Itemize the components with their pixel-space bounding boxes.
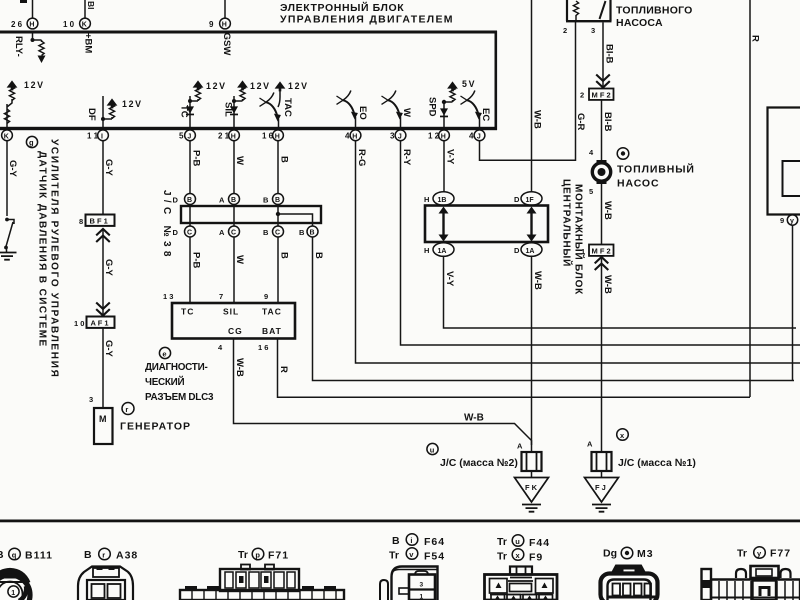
svg-text:SIL: SIL <box>223 307 239 317</box>
svg-text:W: W <box>234 156 245 165</box>
pin 9 H <box>209 18 230 29</box>
svg-text:2: 2 <box>563 26 567 35</box>
wire W-B from 1A to JC2 <box>531 256 533 452</box>
svg-text:I: I <box>101 133 103 140</box>
svg-text:G-Y: G-Y <box>103 259 114 277</box>
wire B bus from J/C38 <box>313 237 795 381</box>
svg-text:W: W <box>234 255 245 264</box>
wire from right pin down <box>792 225 794 380</box>
svg-text:M F 2: M F 2 <box>592 246 611 255</box>
connector F44/F9 drawing <box>485 567 558 600</box>
svg-text:НАСОСА: НАСОСА <box>616 17 663 29</box>
pin 21 H <box>218 130 239 141</box>
pin 16 H <box>262 130 283 141</box>
svg-text:A F 1: A F 1 <box>91 318 109 327</box>
svg-text:D: D <box>173 228 179 237</box>
pin 26 H <box>11 18 38 29</box>
wire R from DLC3 BAT <box>278 339 751 398</box>
circled u (JC2 code) <box>427 443 438 454</box>
svg-text:УСИЛИТЕЛЯ РУЛЕВОГО УПРАВЛЕНИЯ: УСИЛИТЕЛЯ РУЛЕВОГО УПРАВЛЕНИЯ <box>49 139 60 378</box>
svg-text:A: A <box>219 196 225 205</box>
connector F71 drawing <box>180 565 344 600</box>
svg-text:1 0: 1 0 <box>63 20 75 29</box>
svg-text:M F 2: M F 2 <box>592 90 611 99</box>
svg-text:q: q <box>12 550 17 559</box>
svg-text:H: H <box>424 246 429 255</box>
svg-text:G-Y: G-Y <box>103 159 114 177</box>
svg-text:BAT: BAT <box>262 326 282 336</box>
svg-text:B: B <box>392 535 400 547</box>
circled r <box>99 548 111 560</box>
W transistor <box>382 91 403 128</box>
wire W-B to JC1 <box>601 270 603 452</box>
wire pin5 P-B down <box>189 141 191 194</box>
wire V-Y bus from 1A <box>444 256 797 328</box>
svg-text:M3: M3 <box>637 548 654 560</box>
J/C38 bottom pin D C <box>173 226 196 237</box>
svg-text:K: K <box>4 133 9 140</box>
connector F77 drawing <box>702 566 800 600</box>
circled x (F9) <box>512 549 524 561</box>
pin K wire and resistors <box>4 80 17 127</box>
svg-text:1 0: 1 0 <box>74 319 84 328</box>
connector MF2 no1 <box>581 245 614 257</box>
svg-text:B F 1: B F 1 <box>90 216 108 225</box>
svg-text:D: D <box>173 196 179 205</box>
svg-text:1B: 1B <box>438 197 447 204</box>
svg-text:B: B <box>279 156 290 163</box>
ground (pressure switch) <box>0 253 17 260</box>
svg-text:B: B <box>313 252 324 259</box>
DLC3 connector box <box>172 303 295 339</box>
svg-text:BI-B: BI-B <box>602 112 613 132</box>
connector A38 drawing <box>78 566 133 600</box>
svg-text:DF: DF <box>86 108 97 121</box>
circled y (F77) <box>754 547 766 559</box>
J/C38 bottom pin B C <box>263 226 284 237</box>
circled p <box>252 548 264 560</box>
svg-text:W-B: W-B <box>602 275 613 294</box>
label fuel pump <box>617 163 695 190</box>
svg-text:ДАТЧИК ДАВЛЕНИЯ В СИСТЕМЕ: ДАТЧИК ДАВЛЕНИЯ В СИСТЕМЕ <box>37 151 48 348</box>
svg-text:B: B <box>0 549 4 561</box>
svg-text:J/C (масса №1): J/C (масса №1) <box>618 457 696 469</box>
oval pin H 1B <box>424 192 454 206</box>
svg-text:H: H <box>441 133 446 140</box>
circled u (F44) <box>512 535 524 547</box>
connector BF1 <box>79 215 115 227</box>
svg-text:B: B <box>263 196 269 205</box>
svg-text:B: B <box>299 228 305 237</box>
wire pin11 to BF1 <box>102 141 104 215</box>
svg-text:1F: 1F <box>526 197 535 204</box>
right pin 9 y <box>780 215 798 225</box>
svg-text:НАСОС: НАСОС <box>617 178 659 190</box>
svg-text:F44: F44 <box>529 537 550 549</box>
svg-text:u: u <box>515 537 520 546</box>
wire BF1 to AF1 <box>102 244 104 302</box>
wire R-Y from pin 3J <box>401 141 800 345</box>
wire above pin 9 <box>224 0 226 18</box>
svg-text:Tr: Tr <box>497 551 507 563</box>
svg-text:12V: 12V <box>288 81 309 91</box>
wire AF1 to generator <box>102 328 104 408</box>
svg-text:W-B: W-B <box>532 110 543 129</box>
arrows down into MF2 no2 <box>596 75 610 88</box>
svg-text:TC: TC <box>181 307 194 317</box>
svg-text:C: C <box>187 230 192 237</box>
svg-text:B: B <box>187 197 192 204</box>
svg-text:K: K <box>82 22 87 29</box>
svg-text:B: B <box>310 230 315 237</box>
label fuel pump relay <box>616 5 693 30</box>
svg-text:5: 5 <box>589 187 593 196</box>
pin 12 H <box>428 130 449 141</box>
svg-text:EC: EC <box>480 108 491 121</box>
svg-text:МОНТАЖНЫЙ БЛОК: МОНТАЖНЫЙ БЛОК <box>573 184 586 295</box>
svg-text:x: x <box>620 431 625 440</box>
svg-text:R-Y: R-Y <box>401 149 412 166</box>
connector F64/F54 drawing <box>380 567 438 600</box>
svg-text:y: y <box>790 218 794 225</box>
svg-text:2 6: 2 6 <box>11 20 23 29</box>
circled i <box>406 534 418 546</box>
svg-text:7: 7 <box>219 292 223 301</box>
connector B111 drawing <box>0 571 30 600</box>
DLC3 name circled e <box>159 347 170 358</box>
svg-text:1 3: 1 3 <box>163 292 173 301</box>
svg-text:9: 9 <box>209 20 214 29</box>
pin 11 I <box>87 130 108 141</box>
svg-text:1 6: 1 6 <box>258 343 268 352</box>
svg-text:G-Y: G-Y <box>103 340 114 358</box>
partial label top-left <box>20 0 27 3</box>
svg-text:Bl: Bl <box>86 1 96 10</box>
svg-text:u: u <box>430 445 435 454</box>
svg-text:F54: F54 <box>424 551 445 563</box>
svg-text:УПРАВЛЕНИЯ ДВИГАТЕЛЕМ: УПРАВЛЕНИЯ ДВИГАТЕЛЕМ <box>280 14 454 26</box>
wire MF2 to pump (BI-B) <box>601 100 603 161</box>
svg-text:F K: F K <box>525 483 538 492</box>
svg-text:3: 3 <box>591 26 595 35</box>
SIL pull-up and diode <box>230 80 248 127</box>
svg-text:H: H <box>231 133 236 140</box>
svg-text:A: A <box>587 440 593 449</box>
svg-text:4: 4 <box>469 131 474 140</box>
svg-text:TAC: TAC <box>282 98 293 117</box>
right side box partial <box>768 108 800 215</box>
svg-text:W-B: W-B <box>602 201 613 220</box>
TAC transistor and 12V <box>260 81 286 127</box>
connector M3 drawing <box>601 566 659 600</box>
svg-text:F9: F9 <box>529 552 543 564</box>
svg-text:12V: 12V <box>122 99 143 109</box>
svg-text:H: H <box>29 22 34 29</box>
svg-text:p: p <box>255 550 260 559</box>
wire W-B main from top <box>531 0 533 192</box>
wire R vertical right <box>749 0 751 397</box>
oval pin H 1A <box>424 243 454 257</box>
svg-text:5V: 5V <box>462 79 476 89</box>
svg-text:x: x <box>516 551 521 560</box>
TC pull-up and diode <box>186 80 203 127</box>
svg-text:5: 5 <box>179 131 184 140</box>
svg-text:IGSW: IGSW <box>221 30 232 55</box>
svg-text:SPD: SPD <box>427 97 438 117</box>
triangle FK <box>515 478 549 503</box>
svg-text:РАЗЪЕМ DLC3: РАЗЪЕМ DLC3 <box>145 392 214 403</box>
svg-text:y: y <box>757 549 762 558</box>
svg-text:A38: A38 <box>116 550 138 562</box>
svg-text:ТОПЛИВНОГО: ТОПЛИВНОГО <box>616 5 693 17</box>
svg-text:TC: TC <box>179 105 190 118</box>
wire B to DLC3 <box>277 237 279 303</box>
svg-text:12V: 12V <box>250 81 271 91</box>
svg-text:Tr: Tr <box>389 550 399 562</box>
J/C38 bottom pin A C <box>219 226 240 237</box>
svg-text:Tr: Tr <box>737 548 747 560</box>
svg-text:F77: F77 <box>770 548 791 560</box>
block internal arrow right <box>527 207 537 242</box>
svg-text:C: C <box>231 230 236 237</box>
svg-text:R: R <box>278 366 289 373</box>
circled w (M3) <box>621 547 633 559</box>
J/C38 top pin B B <box>263 194 284 205</box>
svg-text:8: 8 <box>79 217 83 226</box>
wire pin21 W down <box>233 141 235 194</box>
wire JC1 to triangle <box>601 471 603 478</box>
arrows up into BF1 <box>96 229 110 244</box>
svg-text:M: M <box>99 414 107 424</box>
circled q <box>9 548 21 560</box>
separator line <box>0 520 800 523</box>
wire stub above pin 26 <box>32 0 34 18</box>
J/C38 top pin D B <box>173 194 196 205</box>
oval pin D 1A <box>514 243 542 257</box>
svg-text:F64: F64 <box>424 536 445 548</box>
svg-text:P-B: P-B <box>191 252 202 269</box>
wire EC to relay (G-R) <box>480 22 576 160</box>
svg-text:ГЕНЕРАТОР: ГЕНЕРАТОР <box>120 421 191 433</box>
svg-text:g: g <box>29 138 34 147</box>
svg-text:9: 9 <box>780 216 784 225</box>
junction connector масса №1 box <box>592 452 612 471</box>
arrows up into MF2 no1 <box>595 257 609 270</box>
wire R-G from pin 4H <box>356 141 800 363</box>
svg-text:A: A <box>517 442 523 451</box>
svg-text:Tr: Tr <box>497 536 507 548</box>
svg-text:H: H <box>424 195 429 204</box>
svg-text:R: R <box>750 35 761 42</box>
DF pull-up 12V <box>101 96 117 127</box>
ECU box top edge <box>0 31 497 34</box>
pin K bottom <box>2 130 13 141</box>
svg-text:4: 4 <box>345 131 350 140</box>
svg-text:r: r <box>102 550 105 559</box>
svg-text:v: v <box>409 550 414 559</box>
svg-text:4: 4 <box>218 343 223 352</box>
svg-text:1: 1 <box>420 594 424 600</box>
svg-text:J: J <box>477 133 481 140</box>
pressure switch contact <box>4 218 14 252</box>
svg-text:W-B: W-B <box>464 413 484 424</box>
svg-text:1A: 1A <box>526 248 535 255</box>
svg-text:D: D <box>514 246 520 255</box>
SPD pull-up 5V and diode <box>440 81 458 127</box>
svg-text:ТОПЛИВНЫЙ: ТОПЛИВНЫЙ <box>617 163 695 176</box>
pin 4 J <box>469 130 485 141</box>
svg-text:J: J <box>398 133 402 140</box>
EO transistor <box>337 91 358 128</box>
svg-text:B111: B111 <box>25 550 53 562</box>
svg-text:J/C (масса №2): J/C (масса №2) <box>440 457 518 469</box>
ECU box bottom edge <box>0 127 497 130</box>
J/C38 bottom pin B B <box>299 226 318 237</box>
svg-text:A: A <box>219 228 225 237</box>
fuel pump motor M1 <box>592 160 610 184</box>
ground FK <box>522 505 541 512</box>
wire above pin 10 <box>84 0 86 18</box>
pin 3 J <box>390 130 406 141</box>
sensor name circled g <box>26 136 37 147</box>
triangle FJ <box>585 478 619 503</box>
svg-text:P-B: P-B <box>191 150 202 167</box>
EC transistor <box>461 91 482 128</box>
svg-text:CG: CG <box>228 326 243 336</box>
svg-text:C: C <box>275 230 280 237</box>
svg-text:D: D <box>514 195 520 204</box>
junction connector масса №2 box <box>522 452 542 471</box>
fuel pump circled w <box>617 148 629 160</box>
pin 4 H <box>345 130 361 141</box>
svg-text:V-Y: V-Y <box>444 271 455 287</box>
J/C38 top pin A B <box>219 194 240 205</box>
svg-text:TAC: TAC <box>262 307 282 317</box>
svg-text:Tr: Tr <box>238 549 248 561</box>
wire pin16 B down <box>277 141 279 194</box>
svg-text:F71: F71 <box>268 550 289 562</box>
svg-text:12V: 12V <box>206 81 227 91</box>
svg-text:G-R: G-R <box>575 113 586 131</box>
generator circled r <box>122 403 134 415</box>
svg-text:r: r <box>125 405 128 414</box>
wire W to DLC3 <box>233 237 235 303</box>
junction block J/C38 box <box>181 206 321 223</box>
svg-text:W-B: W-B <box>532 271 543 290</box>
svg-text:B: B <box>263 228 269 237</box>
svg-text:ЦЕНТРАЛЬНЫЙ: ЦЕНТРАЛЬНЫЙ <box>561 179 574 267</box>
pin 5 J <box>179 130 195 141</box>
wire JC2 to triangle <box>531 471 533 478</box>
svg-text:3: 3 <box>420 582 424 589</box>
svg-text:ЭЛЕКТРОННЫЙ БЛОК: ЭЛЕКТРОННЫЙ БЛОК <box>280 1 404 14</box>
svg-text:1: 1 <box>11 590 15 597</box>
svg-text:J: J <box>187 133 191 140</box>
svg-text:9: 9 <box>264 292 268 301</box>
svg-text:H: H <box>222 22 227 29</box>
svg-text:Dg: Dg <box>603 548 617 560</box>
svg-text:3: 3 <box>390 131 395 140</box>
right side inner box <box>783 161 800 196</box>
wire pump to MF2 no1 (W-B) <box>601 184 603 244</box>
circled v <box>406 548 418 560</box>
svg-text:i: i <box>410 536 412 545</box>
svg-text:B: B <box>279 252 290 259</box>
svg-text:G-Y: G-Y <box>7 160 18 178</box>
central block box <box>425 206 548 243</box>
svg-text:B: B <box>231 197 236 204</box>
svg-text:J/C №38: J/C №38 <box>161 190 172 261</box>
svg-text:W: W <box>401 108 412 117</box>
svg-text:BI-B: BI-B <box>604 44 615 64</box>
svg-text:3: 3 <box>89 395 93 404</box>
svg-text:e: e <box>162 349 166 358</box>
pressure switch sensor wire G-Y <box>6 141 8 216</box>
svg-text:V-Y: V-Y <box>445 149 456 165</box>
svg-text:B: B <box>275 197 280 204</box>
connector AF1 <box>74 317 115 329</box>
svg-text:ЧЕСКИЙ: ЧЕСКИЙ <box>145 376 185 388</box>
wire V-Y from pin 12H <box>443 141 445 192</box>
svg-text:EO: EO <box>357 106 368 120</box>
J/C38 internal wires <box>190 205 313 227</box>
svg-text:F J: F J <box>595 483 606 492</box>
svg-text:4: 4 <box>589 148 594 157</box>
wire P-B to DLC3 <box>189 237 191 303</box>
svg-text:W-B: W-B <box>234 358 245 377</box>
svg-text:SIL: SIL <box>223 102 234 117</box>
svg-text:ДИАГНОСТИ-: ДИАГНОСТИ- <box>145 362 207 373</box>
generator M body <box>94 408 113 444</box>
ground FJ <box>592 505 611 512</box>
wire W-B from DLC3 CG <box>234 339 532 446</box>
node RLY- junction <box>31 34 42 43</box>
svg-text:B: B <box>84 549 92 561</box>
svg-text:R-G: R-G <box>356 149 367 166</box>
svg-text:H: H <box>275 133 280 140</box>
circled x (JC1 code) <box>617 429 629 441</box>
pin 10 K <box>63 18 90 29</box>
arrows down into AF1 <box>96 302 110 316</box>
svg-text:+BM: +BM <box>83 33 94 53</box>
svg-text:2: 2 <box>580 91 584 100</box>
resistor RLY arrow <box>38 40 46 63</box>
op-amp U1 : ECU title text <box>280 1 454 26</box>
svg-text:1A: 1A <box>438 248 447 255</box>
fuel pump relay box <box>566 0 612 22</box>
connector MF2 no2 <box>580 89 614 100</box>
block internal arrow left <box>439 207 449 242</box>
svg-text:H: H <box>352 133 357 140</box>
relay contact <box>600 1 606 19</box>
wire relay3 to MF2 (BI-B) <box>602 22 604 75</box>
svg-text:12V: 12V <box>24 80 45 90</box>
relay coil <box>573 1 578 20</box>
ECU box right edge <box>495 31 498 130</box>
DLC3 name text <box>145 362 214 403</box>
svg-text:RLY-: RLY- <box>13 36 24 57</box>
oval pin D 1F <box>514 192 542 206</box>
